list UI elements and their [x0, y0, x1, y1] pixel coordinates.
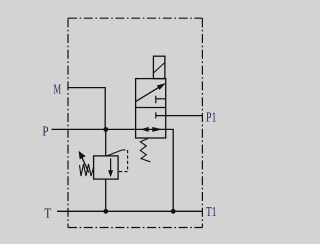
svg-text:T: T: [44, 206, 51, 221]
relief valve V1 body: [94, 156, 119, 179]
solenoid valve U1 body: [136, 79, 166, 138]
wire T line: [57, 210, 202, 212]
junction P / relief riser: [103, 127, 108, 132]
wire P line: [52, 128, 166, 130]
solenoid valve U1 return spring: [140, 139, 150, 162]
enclosure boundary (dash-dot): [68, 18, 202, 227]
relief valve V1 adjustable spring: [80, 164, 94, 176]
solenoid valve U1 solenoid diagonal: [153, 63, 165, 74]
wire P1 line: [156, 115, 203, 117]
solenoid valve U1 lower position blocked port P1: [155, 112, 157, 118]
solenoid valve U1 upper position flow arrow: [136, 88, 159, 102]
relief valve V1 flow arrow: [110, 158, 112, 171]
solenoid valve U1 upper position blocked port: [155, 96, 157, 104]
solenoid valve U1 solenoid box: [153, 56, 165, 78]
junction relief outlet on T: [103, 209, 108, 214]
wire relief valve riser from P: [105, 129, 107, 156]
svg-text:T1: T1: [206, 205, 217, 220]
relief valve V1 adjustment arrow: [82, 157, 89, 173]
wire relief valve outlet to T: [105, 179, 107, 211]
solenoid valve U1 lower position flow arrows: [141, 127, 149, 132]
svg-text:M: M: [54, 82, 62, 97]
junction valve drop on T: [171, 209, 176, 214]
relief valve V1 pilot line (dashed): [107, 150, 123, 156]
svg-text:P1: P1: [206, 110, 217, 125]
wire M line horizontal and drop to P: [68, 88, 105, 130]
svg-text:P: P: [42, 125, 48, 140]
wire valve outlet to tank drop: [166, 129, 174, 211]
solenoid valve U1 position divider: [136, 107, 166, 109]
